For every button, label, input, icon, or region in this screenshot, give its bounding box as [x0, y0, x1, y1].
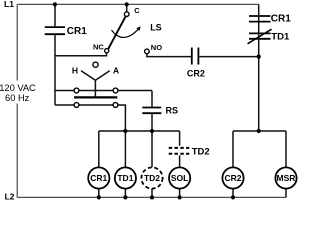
svg-text:TD1: TD1 — [271, 32, 290, 43]
svg-text:C: C — [134, 6, 140, 15]
svg-text:RS: RS — [166, 106, 179, 116]
svg-text:CR2: CR2 — [187, 68, 205, 78]
svg-text:CR1: CR1 — [90, 173, 107, 183]
svg-text:SOL: SOL — [171, 173, 188, 183]
svg-text:TD2: TD2 — [192, 147, 210, 158]
svg-text:L1: L1 — [4, 0, 14, 9]
svg-text:CR1: CR1 — [271, 14, 291, 25]
svg-text:MSR: MSR — [277, 173, 296, 183]
svg-text:L2: L2 — [5, 191, 15, 201]
svg-text:NC: NC — [93, 42, 104, 51]
svg-text:CR2: CR2 — [224, 173, 241, 183]
svg-text:LS: LS — [150, 22, 162, 32]
svg-text:H: H — [72, 65, 78, 75]
svg-text:A: A — [113, 65, 119, 75]
svg-text:120 VAC: 120 VAC — [0, 83, 36, 93]
svg-text:CR1: CR1 — [67, 26, 87, 37]
svg-text:60 Hz: 60 Hz — [5, 93, 30, 103]
svg-text:TD1: TD1 — [117, 173, 133, 183]
svg-text:TD2: TD2 — [144, 173, 160, 183]
svg-text:NO: NO — [151, 43, 162, 52]
